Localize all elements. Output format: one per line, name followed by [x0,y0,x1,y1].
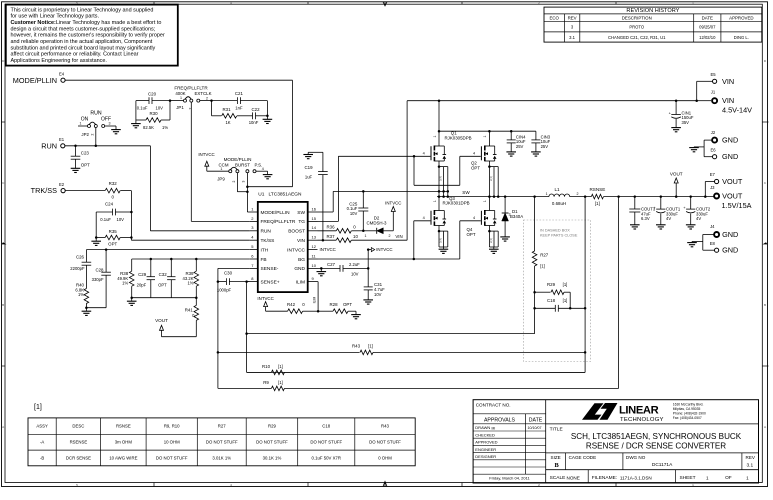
svg-text:1%: 1% [122,281,128,286]
svg-text:J4: J4 [710,224,715,229]
svg-text:RUN: RUN [41,141,57,150]
resistor R39 [183,259,199,298]
svg-text:C29: C29 [138,272,147,277]
svg-text:SW: SW [297,210,305,216]
ground at ITH comp [82,311,92,315]
svg-text:RJK0301DPB: RJK0301DPB [443,201,470,206]
svg-text:OPT: OPT [343,302,352,307]
ground at COUT2 [686,225,696,229]
svg-text:DC1171A: DC1171A [652,462,673,468]
svg-text:SENSE-: SENSE- [261,266,279,272]
svg-text:E8: E8 [710,241,716,246]
svg-text:INTVCC: INTVCC [257,296,273,301]
svg-text:2(4): 2(4) [489,176,493,181]
svg-text:12: 12 [312,244,317,249]
svg-text:GND: GND [294,266,305,272]
svg-text:E5: E5 [710,72,716,77]
ground at C31 [363,300,373,304]
resistor R29 [535,282,571,308]
capacitor C26 [70,250,91,289]
wire VIN riser [406,101,408,241]
ground at COUT1 [656,225,666,229]
svg-text:J2: J2 [711,130,716,135]
resistor R41 [185,298,199,337]
ground at J2 [689,148,699,152]
jumper JP9 mode select [198,152,272,212]
svg-text:JP1: JP1 [176,105,184,110]
ground at CIN1 [671,128,681,132]
wire FREQ filter right [266,101,269,120]
svg-text:1: 1 [365,234,367,238]
transistor Q4 OPT [467,197,499,250]
svg-text:2: 2 [206,96,208,100]
svg-text:4: 4 [423,216,425,220]
svg-text:1: 1 [692,1,694,5]
svg-text:4: 4 [230,483,232,487]
svg-text:TK/SS: TK/SS [261,238,275,244]
wire TG net [318,155,481,221]
svg-text:GND: GND [722,230,738,239]
svg-text:2200pF: 2200pF [70,266,85,271]
svg-text:1%: 1% [162,125,168,130]
svg-text:R43: R43 [381,424,389,429]
svg-text:BOOST: BOOST [288,229,305,235]
svg-text:1: 1 [706,475,709,480]
svg-text:FILENAME:: FILENAME: [592,475,617,481]
assembly options table [28,404,415,466]
terminal J2 GND [711,130,738,145]
svg-text:SCALE: SCALE [550,475,566,481]
jumper JP2 RUN on/off [78,111,121,146]
capacitor C24 [96,202,131,223]
svg-text:OPT: OPT [467,232,476,237]
svg-text:REV: REV [568,16,577,21]
svg-text:C22: C22 [251,107,260,112]
ground at C22 [263,119,273,123]
svg-text:2(4): 2(4) [439,238,443,243]
svg-text:B: B [2,303,4,307]
svg-text:3: 3 [242,181,246,183]
svg-text:VIN: VIN [297,238,306,244]
svg-text:MI: MI [492,427,496,431]
svg-text:J1: J1 [711,90,716,95]
wire VIN rail [407,99,698,102]
wire J2-E6 ground bracket [694,140,713,157]
svg-text:25V: 25V [516,144,524,149]
ground at R28 [351,315,361,319]
svg-text:APPROVED: APPROVED [475,440,497,445]
svg-text:10: 10 [353,234,358,239]
svg-text:10/10/07: 10/10/07 [528,426,542,430]
capacitor COUT1 [653,197,681,225]
diode D1 B340A [502,197,524,237]
svg-text:0.68uH: 0.68uH [552,201,566,206]
svg-text:1K: 1K [225,120,230,125]
svg-text:ITH: ITH [261,247,269,253]
resistor R42 [266,302,319,313]
svg-text:C32: C32 [159,272,168,277]
resistor R36 [318,225,364,234]
net flag INTVCC pin12 [367,247,393,252]
svg-text:[1]: [1] [34,404,42,411]
svg-text:R35: R35 [109,229,118,234]
svg-text:VOUT: VOUT [722,177,743,186]
svg-text:1: 1 [546,192,548,196]
svg-text:DO NOT STUFF: DO NOT STUFF [206,440,238,445]
svg-text:1nF: 1nF [235,105,243,110]
terminal E1 RUN [41,137,65,150]
svg-text:VIN: VIN [722,96,734,105]
wire RUN net [65,145,250,231]
wire drain tie [438,130,536,133]
svg-text:10nF: 10nF [249,120,259,125]
svg-text:6.3V: 6.3V [641,216,650,221]
title block [473,400,758,483]
svg-text:design a circuit that meets cu: design a circuit that meets customer-sup… [11,26,156,32]
svg-text:ILIM: ILIM [296,279,305,285]
svg-text:OPT: OPT [108,242,117,247]
svg-text:R36: R36 [326,225,335,230]
capacitor C20 [136,91,170,110]
svg-text:for use with Linear Technology: for use with Linear Technology parts. [11,14,100,20]
wire GND pin10 [318,267,341,271]
svg-text:C21: C21 [235,91,244,96]
wire BG net [318,221,481,260]
power VOUT arrow [670,171,683,196]
svg-text:30.1K 1%: 30.1K 1% [263,455,282,460]
svg-text:-A: -A [40,440,44,445]
svg-text:INTVCC: INTVCC [385,201,401,206]
inductor L1 [546,187,592,206]
svg-text:C19: C19 [304,165,313,170]
svg-text:ON: ON [81,116,89,122]
svg-text:DESC: DESC [72,424,84,429]
resistor R30 [136,99,171,130]
terminal J1 VIN [697,90,752,115]
ground at Q4 source [489,249,499,253]
svg-text:400K: 400K [175,91,185,96]
svg-text:R28: R28 [329,302,338,307]
svg-text:VOUT: VOUT [155,318,168,323]
svg-text:MODE/PLLIN: MODE/PLLIN [13,76,57,85]
svg-text:DESCRIPTION: DESCRIPTION [622,16,652,21]
svg-text:TG: TG [298,219,305,225]
svg-text:GND: GND [722,246,738,255]
svg-text:E7: E7 [710,172,716,177]
svg-text:DESIGNER: DESIGNER [475,454,496,459]
svg-text:TRK/SS: TRK/SS [31,186,57,195]
svg-text:RUN: RUN [261,229,272,235]
svg-text:OPT: OPT [158,283,167,288]
svg-text:330pF: 330pF [92,277,104,282]
svg-text:10 AWG WIRE: 10 AWG WIRE [109,455,137,460]
resistor R35 [95,212,131,247]
svg-text:DATE: DATE [702,16,713,21]
svg-text:ILIM: ILIM [312,297,316,304]
svg-text:4: 4 [230,1,232,5]
svg-text:1: 1 [80,121,82,125]
diode D2 CMDSH-3 [363,216,393,238]
svg-text:ECO: ECO [549,16,559,21]
svg-text:DO NOT STUFF: DO NOT STUFF [156,455,188,460]
svg-text:FREQ/PLLFLTR: FREQ/PLLFLTR [174,85,208,90]
svg-text:SW: SW [462,190,470,195]
wire SENSE+ net [245,282,534,373]
svg-text:C18: C18 [322,424,330,429]
svg-text:12/02/10: 12/02/10 [699,35,716,40]
capacitor C27 [327,262,368,276]
ground at FB divider [127,301,137,305]
customer notice box [6,5,178,66]
svg-text:-B: -B [40,455,44,460]
svg-text:1171A-3.1.DSN: 1171A-3.1.DSN [620,475,652,480]
wire comp ground join [85,306,106,311]
svg-text:RSENSE / DCR SENSE CONVERTER: RSENSE / DCR SENSE CONVERTER [586,442,726,451]
capacitor C18 [535,298,587,312]
capacitor C29 [137,259,155,298]
svg-text:DRAWN: DRAWN [475,425,490,430]
svg-text:SIZE: SIZE [551,455,561,460]
svg-text:1: 1 [483,136,487,138]
svg-text:E2: E2 [59,182,65,187]
svg-text:LINEAR: LINEAR [619,405,659,417]
terminal E4 MODE/PLLIN [13,72,65,85]
svg-text:20pF: 20pF [137,283,147,288]
svg-text:C30: C30 [224,271,233,276]
svg-text:1: 1 [483,200,487,202]
svg-text:DING L.: DING L. [734,35,749,40]
svg-text:1: 1 [220,167,222,171]
svg-text:C18: C18 [547,298,556,303]
capacitor C21 [235,91,268,111]
svg-text:[1]: [1] [540,264,545,269]
svg-text:DO NOT STUFF: DO NOT STUFF [369,440,401,445]
svg-text:4: 4 [473,152,475,156]
svg-text:CHECKED: CHECKED [475,432,495,437]
transistor Q1 RJK0305DPB [423,131,472,197]
svg-text:2: 2 [538,1,540,5]
svg-text:R27: R27 [218,424,226,429]
wire ILIM net [312,282,319,313]
svg-text:Applications Engineering for a: Applications Engineering for assistance. [11,58,108,64]
svg-text:5: 5 [76,483,78,487]
svg-text:R32: R32 [109,181,118,186]
capacitor C23 [71,146,90,173]
svg-text:RJK0305DPB: RJK0305DPB [445,135,472,140]
resistor R43 [218,343,585,354]
svg-text:1000pF: 1000pF [217,287,232,292]
svg-text:1: 1 [180,96,182,100]
svg-text:10V: 10V [117,217,125,222]
svg-text:APPROVALS: APPROVALS [484,417,516,423]
capacitor COUT3 [629,197,656,225]
svg-text:2: 2 [577,192,579,196]
ground at CIN4 [506,152,516,156]
svg-text:0.1uF: 0.1uF [100,217,111,222]
svg-text:L1: L1 [554,187,560,192]
wire FB rail [132,258,250,261]
svg-text:substitution and printed circu: substitution and printed circuit board l… [11,45,156,51]
svg-text:R29: R29 [268,424,276,429]
wire SENSE+ stub [247,281,250,283]
svg-text:INTVCC: INTVCC [376,247,392,252]
svg-text:BG: BG [298,257,305,263]
svg-text:[1]: [1] [563,298,568,303]
svg-text:2: 2 [91,134,95,136]
capacitor CIN4 [507,131,526,152]
svg-text:4: 4 [262,167,264,171]
svg-text:SENSE+: SENSE+ [261,279,280,285]
resistor R38 [117,259,134,298]
ground at J4 [687,243,697,247]
svg-text:MODE/PLLIN: MODE/PLLIN [224,157,252,162]
svg-text:10 OHM: 10 OHM [164,440,180,445]
ground at Q3 source [439,249,449,253]
svg-text:INTVCC: INTVCC [320,247,336,252]
capacitor C25 [347,191,369,232]
svg-text:JP2: JP2 [81,132,89,137]
svg-text:4: 4 [473,216,475,220]
wire SW to boost cap [318,190,448,212]
svg-text:3: 3 [384,1,386,5]
svg-text:16: 16 [312,206,317,211]
node FREQ filter left [210,99,237,115]
terminal J3 VOUT [710,185,752,210]
svg-text:SCH, LTC3851AEGN, SYNCHRONOUS: SCH, LTC3851AEGN, SYNCHRONOUS BUCK [571,432,742,441]
svg-text:CONTRACT NO.: CONTRACT NO. [476,403,511,408]
svg-text:OF: OF [725,475,732,481]
svg-text:FB: FB [261,257,267,263]
svg-text:DATE: DATE [529,417,543,423]
svg-text:13: 13 [312,235,317,240]
svg-text:2(4): 2(4) [439,176,443,181]
ground at CIN3 [531,152,541,156]
svg-text:OPT: OPT [471,165,480,170]
svg-text:RSNSE: RSNSE [116,424,131,429]
svg-text:INTVCC: INTVCC [198,152,214,157]
svg-text:R9: R9 [263,380,269,385]
svg-text:C27: C27 [327,262,336,267]
svg-text:however, it remains the custom: however, it remains the customer's respo… [11,33,165,39]
wire SW node [437,190,549,198]
svg-text:R37: R37 [326,234,335,239]
resistor R28 [318,302,356,314]
wire Q1 drain [438,101,440,132]
svg-text:1uF: 1uF [305,174,313,179]
svg-text:10: 10 [312,263,317,268]
svg-text:10V: 10V [350,211,358,216]
svg-text:1%: 1% [187,281,193,286]
svg-text:R41: R41 [185,307,194,312]
svg-text:09/25/07: 09/25/07 [699,25,716,30]
capacitor CIN1 [669,101,694,128]
svg-text:Friday, March 04, 2011: Friday, March 04, 2011 [489,476,530,481]
terminal E7 VOUT [705,172,743,196]
svg-text:MODE/PLLIN: MODE/PLLIN [261,210,291,216]
svg-text:0 OHM: 0 OHM [378,455,392,460]
svg-text:LTC3851AEGN: LTC3851AEGN [269,191,303,197]
svg-text:E1: E1 [59,137,65,142]
dashed keep-close box [524,220,591,362]
resistor R32 [65,181,131,199]
svg-text:2.2uF: 2.2uF [349,262,360,267]
terminal J4 GND [710,224,738,239]
svg-text:VOUT: VOUT [670,171,683,176]
revision history table [544,7,762,42]
svg-text:1630 McCarthy Blvd.: 1630 McCarthy Blvd. [673,403,704,407]
wire J4-E8 ground bracket [692,235,715,251]
svg-text:J3: J3 [710,185,715,190]
wire SENSE- net [217,268,250,388]
svg-text:C26: C26 [76,254,85,259]
svg-text:B: B [764,303,766,307]
resistor R9 [218,197,619,391]
svg-text:SHEET: SHEET [680,475,696,481]
capacitor COUT2 [683,197,711,225]
svg-text:3: 3 [109,121,111,125]
resistor RSNSE [589,187,713,206]
svg-text:Milpitas, CA 95035: Milpitas, CA 95035 [673,407,701,411]
svg-text:10V: 10V [374,292,382,297]
svg-text:R31: R31 [222,107,231,112]
svg-text:[1]: [1] [368,343,373,348]
svg-text:affect circuit performance or: affect circuit performance or reliabilit… [11,52,139,58]
svg-text:C23: C23 [81,150,90,155]
wire sense node riser [247,197,587,373]
svg-text:[1]: [1] [278,364,283,369]
capacitor C32 [158,259,175,298]
svg-text:DO NOT STUFF: DO NOT STUFF [256,440,288,445]
svg-text:CHANGED C21, C22, R31, U1: CHANGED C21, C22, R31, U1 [608,35,666,40]
svg-text:C28: C28 [95,267,104,272]
resistor R40 [75,283,88,308]
ground at pin10 [317,272,327,276]
svg-text:APPROVED: APPROVED [729,16,753,21]
terminal E5 VIN [697,72,734,101]
power VOUT at R41 [155,318,196,337]
wire FB bottom rail [130,296,197,301]
wire FREQ/PLLFLTR net [191,102,250,221]
svg-text:2(4): 2(4) [489,238,493,243]
svg-text:ENGINEER: ENGINEER [475,447,496,452]
svg-text:B: B [555,462,560,469]
svg-text:U1: U1 [258,191,264,197]
svg-text:3.01K 1%: 3.01K 1% [212,455,231,460]
svg-text:GND: GND [722,136,738,145]
svg-text:0.1uF: 0.1uF [137,106,148,111]
resistor R37 [318,234,408,243]
svg-text:14: 14 [312,225,317,230]
svg-text:[1]: [1] [595,201,600,206]
svg-text:3.1: 3.1 [569,35,575,40]
svg-text:R43: R43 [352,343,361,348]
transistor Q2 OPT [471,131,498,196]
svg-text:TITLE: TITLE [550,426,563,432]
svg-text:3: 3 [384,483,386,487]
svg-text:10V: 10V [351,271,359,276]
ground at R30 [131,120,141,128]
capacitor CIN3 [531,131,550,152]
wire ITH rail [86,248,249,251]
svg-text:VOUT: VOUT [722,192,743,201]
svg-text:4: 4 [423,152,425,156]
svg-text:EXTCLK: EXTCLK [194,91,211,96]
svg-text:1: 1 [746,475,749,480]
capacitor C31 [364,250,385,300]
terminal E2 TRK/SS [31,182,66,195]
svg-text:[1]: [1] [563,282,568,287]
svg-text:1.5V/15A: 1.5V/15A [722,201,752,210]
